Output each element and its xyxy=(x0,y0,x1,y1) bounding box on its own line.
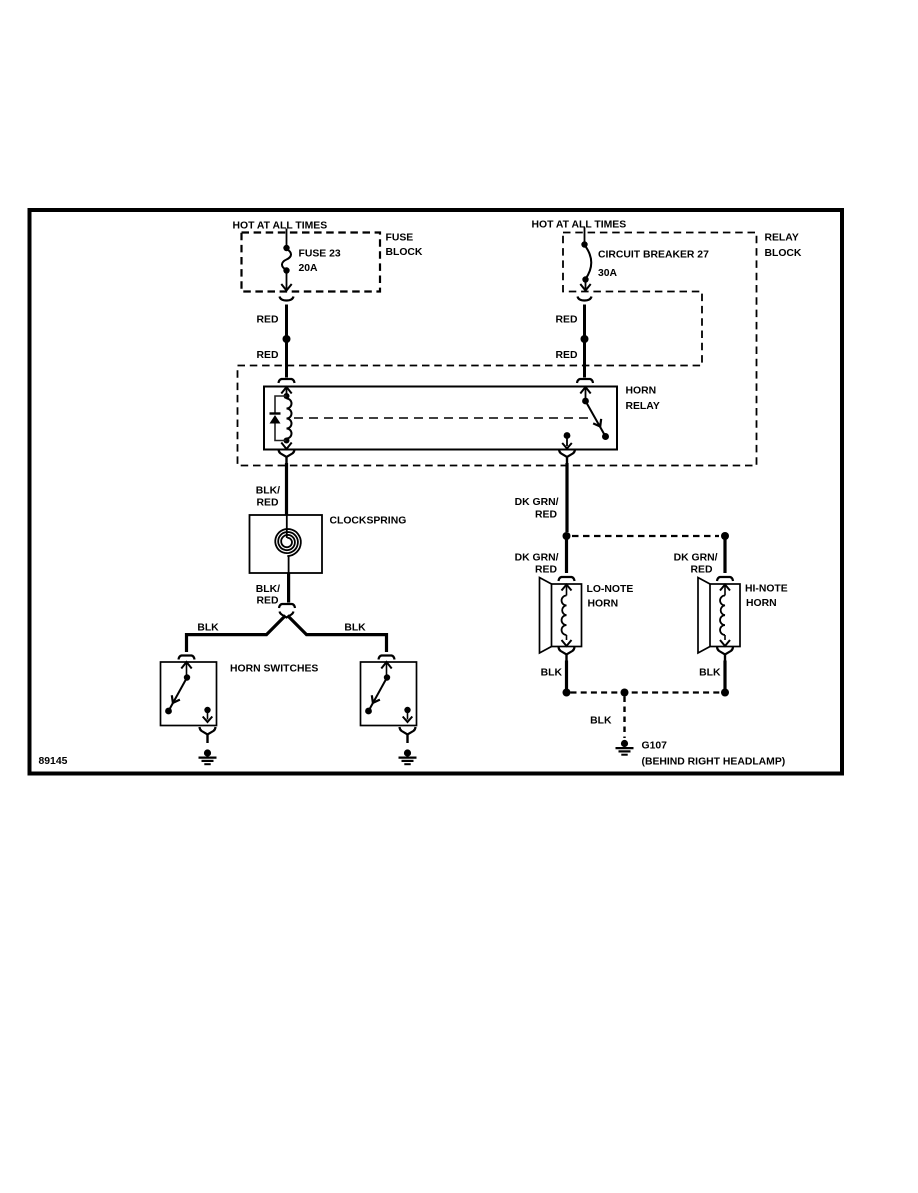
relay armature linkage (dashed) xyxy=(294,417,589,419)
svg-text:FUSE: FUSE xyxy=(386,233,414,244)
ground bus splice xyxy=(621,689,629,697)
svg-text:BLK/: BLK/ xyxy=(256,486,280,497)
switch blade xyxy=(184,674,190,680)
horn relay box xyxy=(264,387,617,450)
horn coil element xyxy=(562,585,572,591)
wire from B+ into relay block xyxy=(584,228,586,245)
svg-text:RED: RED xyxy=(535,565,557,576)
hi-note horn body xyxy=(710,584,740,647)
svg-text:DK GRN/: DK GRN/ xyxy=(515,553,559,564)
svg-text:RED: RED xyxy=(257,315,279,326)
wire relay to clockspring (BLK/RED) xyxy=(285,463,288,515)
connector at horn xyxy=(559,577,575,581)
splice junction on right RED wire xyxy=(581,335,589,343)
relay coil pin entry arrow xyxy=(281,387,291,394)
switch blade xyxy=(384,674,390,680)
horn switch box xyxy=(361,662,417,726)
svg-text:HORN SWITCHES: HORN SWITCHES xyxy=(230,664,318,675)
svg-text:RED: RED xyxy=(257,350,279,361)
switch entry arrow xyxy=(381,662,391,669)
svg-text:BLK: BLK xyxy=(344,623,366,634)
ground G107 xyxy=(621,740,628,747)
connector below relay coil xyxy=(279,450,295,458)
svg-text:G107: G107 xyxy=(642,741,668,752)
svg-text:20A: 20A xyxy=(299,263,319,274)
svg-text:BLK/: BLK/ xyxy=(256,584,280,595)
connector below horn xyxy=(717,647,733,655)
wire horn to ground splice (BLK) xyxy=(723,661,726,690)
ground below horn switch xyxy=(204,749,211,756)
switch output contact xyxy=(404,707,410,713)
switch entry arrow xyxy=(181,662,191,669)
wire split Y to right horn switch (BLK) xyxy=(288,616,387,653)
wire to horn (DK GRN/RED) xyxy=(723,536,726,573)
connector at right horn switch xyxy=(379,656,395,660)
horn switch box xyxy=(161,662,217,726)
connector below horn switch xyxy=(200,727,216,735)
svg-text:BLOCK: BLOCK xyxy=(386,247,423,258)
connector at horn relay pin (left) xyxy=(279,379,295,383)
wire to horn (DK GRN/RED) xyxy=(565,536,568,573)
svg-text:RELAY: RELAY xyxy=(765,233,799,244)
connector below fuse block xyxy=(280,297,294,301)
connector below horn xyxy=(559,647,575,655)
circuit breaker CB27 element xyxy=(581,241,587,247)
wire horn to ground splice (BLK) xyxy=(565,661,568,690)
wire relay to horn splice (DK GRN/RED) xyxy=(565,463,568,532)
switch output contact xyxy=(204,707,210,713)
svg-text:30A: 30A xyxy=(598,268,618,279)
splice junction on left RED wire xyxy=(283,335,291,343)
border frame xyxy=(30,210,843,774)
svg-text:HORN: HORN xyxy=(588,599,619,610)
svg-text:DK GRN/: DK GRN/ xyxy=(515,497,559,508)
svg-text:HORN: HORN xyxy=(746,598,777,609)
svg-text:HORN: HORN xyxy=(626,386,657,397)
wire from B+ into fuse block xyxy=(286,229,288,249)
lo-note horn body xyxy=(552,584,582,647)
svg-text:DK GRN/: DK GRN/ xyxy=(674,553,718,564)
dashed wire to G107 (BLK) xyxy=(623,697,625,739)
connector at horn xyxy=(717,577,733,581)
svg-text:RED: RED xyxy=(257,596,279,607)
connector below horn switch xyxy=(400,727,416,735)
wire fuse to horn relay (RED) xyxy=(285,305,288,378)
svg-text:BLK: BLK xyxy=(197,623,219,634)
relay clamp diode D1 xyxy=(275,396,287,413)
ground splice dot xyxy=(563,689,571,697)
horn coil element xyxy=(720,585,730,591)
svg-text:RED: RED xyxy=(556,350,578,361)
relay coil xyxy=(284,393,290,399)
svg-text:BLOCK: BLOCK xyxy=(765,248,802,259)
dashed wire between horn branches xyxy=(572,535,719,537)
ground below horn switch xyxy=(404,749,411,756)
relay switch common contact xyxy=(564,432,571,439)
connector pair at harness split xyxy=(279,604,295,608)
connector below relay switch xyxy=(559,450,575,458)
svg-text:CIRCUIT BREAKER 27: CIRCUIT BREAKER 27 xyxy=(598,250,709,261)
svg-text:BLK: BLK xyxy=(541,668,563,679)
svg-text:BLK: BLK xyxy=(590,716,612,727)
clockspring spiral xyxy=(286,515,288,538)
connector at horn relay pin (right) xyxy=(577,379,593,383)
svg-text:HI-NOTE: HI-NOTE xyxy=(745,584,788,595)
wire split Y to left horn switch (BLK) xyxy=(187,616,286,653)
relay switch blade xyxy=(582,398,589,405)
relay coil exit arrow xyxy=(286,441,288,444)
svg-text:FUSE 23: FUSE 23 xyxy=(299,249,341,260)
connector below circuit breaker xyxy=(578,297,592,301)
svg-text:LO-NOTE: LO-NOTE xyxy=(587,584,634,595)
svg-text:RELAY: RELAY xyxy=(626,401,660,412)
svg-text:RED: RED xyxy=(535,510,557,521)
splice to horns xyxy=(563,532,571,540)
svg-text:89145: 89145 xyxy=(39,756,68,767)
svg-text:HOT AT ALL TIMES: HOT AT ALL TIMES xyxy=(532,220,627,231)
relay block dashed outline xyxy=(238,233,757,466)
svg-text:HOT AT ALL TIMES: HOT AT ALL TIMES xyxy=(233,221,328,232)
svg-text:(BEHIND RIGHT HEADLAMP): (BEHIND RIGHT HEADLAMP) xyxy=(642,757,786,768)
wire circuit breaker to horn relay (RED) xyxy=(583,305,586,378)
svg-text:RED: RED xyxy=(257,498,279,509)
relay switch pin entry arrow xyxy=(580,387,590,394)
svg-text:CLOCKSPRING: CLOCKSPRING xyxy=(330,516,407,527)
svg-text:RED: RED xyxy=(691,565,713,576)
clockspring box xyxy=(250,515,323,573)
fuse F23 element xyxy=(283,245,289,251)
ground splice dot xyxy=(721,689,729,697)
wire clockspring to splice (BLK/RED) xyxy=(287,573,290,603)
fuse block dashed box xyxy=(242,233,381,292)
connector at left horn switch xyxy=(179,656,195,660)
svg-text:BLK: BLK xyxy=(699,668,721,679)
dashed ground bus between horns xyxy=(571,691,722,693)
svg-text:RED: RED xyxy=(556,315,578,326)
